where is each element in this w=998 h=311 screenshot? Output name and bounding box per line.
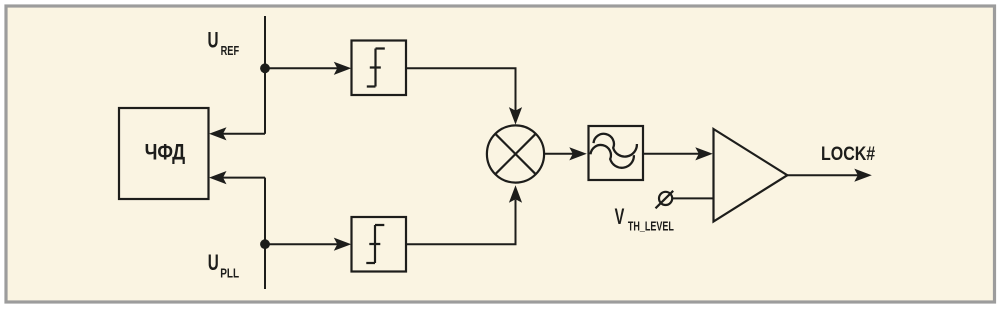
wire from U_PLL dot to limiter 2 — [265, 243, 339, 245]
wire limiter 1 output to mixer top — [406, 68, 516, 111]
node V_TH_LEVEL label — [615, 204, 675, 233]
wire filter output to comparator — [643, 153, 699, 155]
low-pass filter block — [589, 126, 644, 180]
wire limiter 2 output to mixer bottom — [406, 200, 516, 245]
node U_PLL label — [208, 250, 240, 281]
mixer (multiplier) — [487, 125, 544, 182]
node U_REF label — [208, 28, 240, 58]
threshold input symbol (circle with slash) — [656, 191, 674, 209]
wire U_REF vertical — [264, 16, 266, 134]
svg-text:REF: REF — [221, 44, 240, 58]
svg-text:TH_LEVEL: TH_LEVEL — [628, 219, 674, 233]
svg-text:U: U — [208, 250, 219, 275]
wire mixer output to filter — [544, 153, 573, 155]
svg-text:U: U — [208, 28, 219, 53]
wire comparator output — [787, 174, 858, 176]
svg-text:LOCK#: LOCK# — [821, 143, 875, 165]
junction dot on U_PLL line — [260, 239, 270, 249]
svg-text:PLL: PLL — [220, 267, 239, 281]
wire from U_REF dot to limiter 1 — [265, 67, 339, 69]
wire U_PLL vertical — [264, 178, 266, 289]
block ChFD (phase-frequency detector) — [119, 108, 209, 199]
svg-text:ЧФД: ЧФД — [145, 140, 186, 165]
wire ChFD top input arm — [222, 133, 265, 135]
wire threshold to comparator — [672, 197, 713, 199]
comparator — [714, 129, 788, 222]
limiter (sign) block 2 — [352, 217, 407, 272]
wire ChFD bottom input arm — [222, 177, 265, 179]
limiter (sign) block 1 — [352, 41, 407, 96]
svg-text:V: V — [615, 204, 625, 229]
junction dot on U_REF line — [260, 63, 270, 73]
